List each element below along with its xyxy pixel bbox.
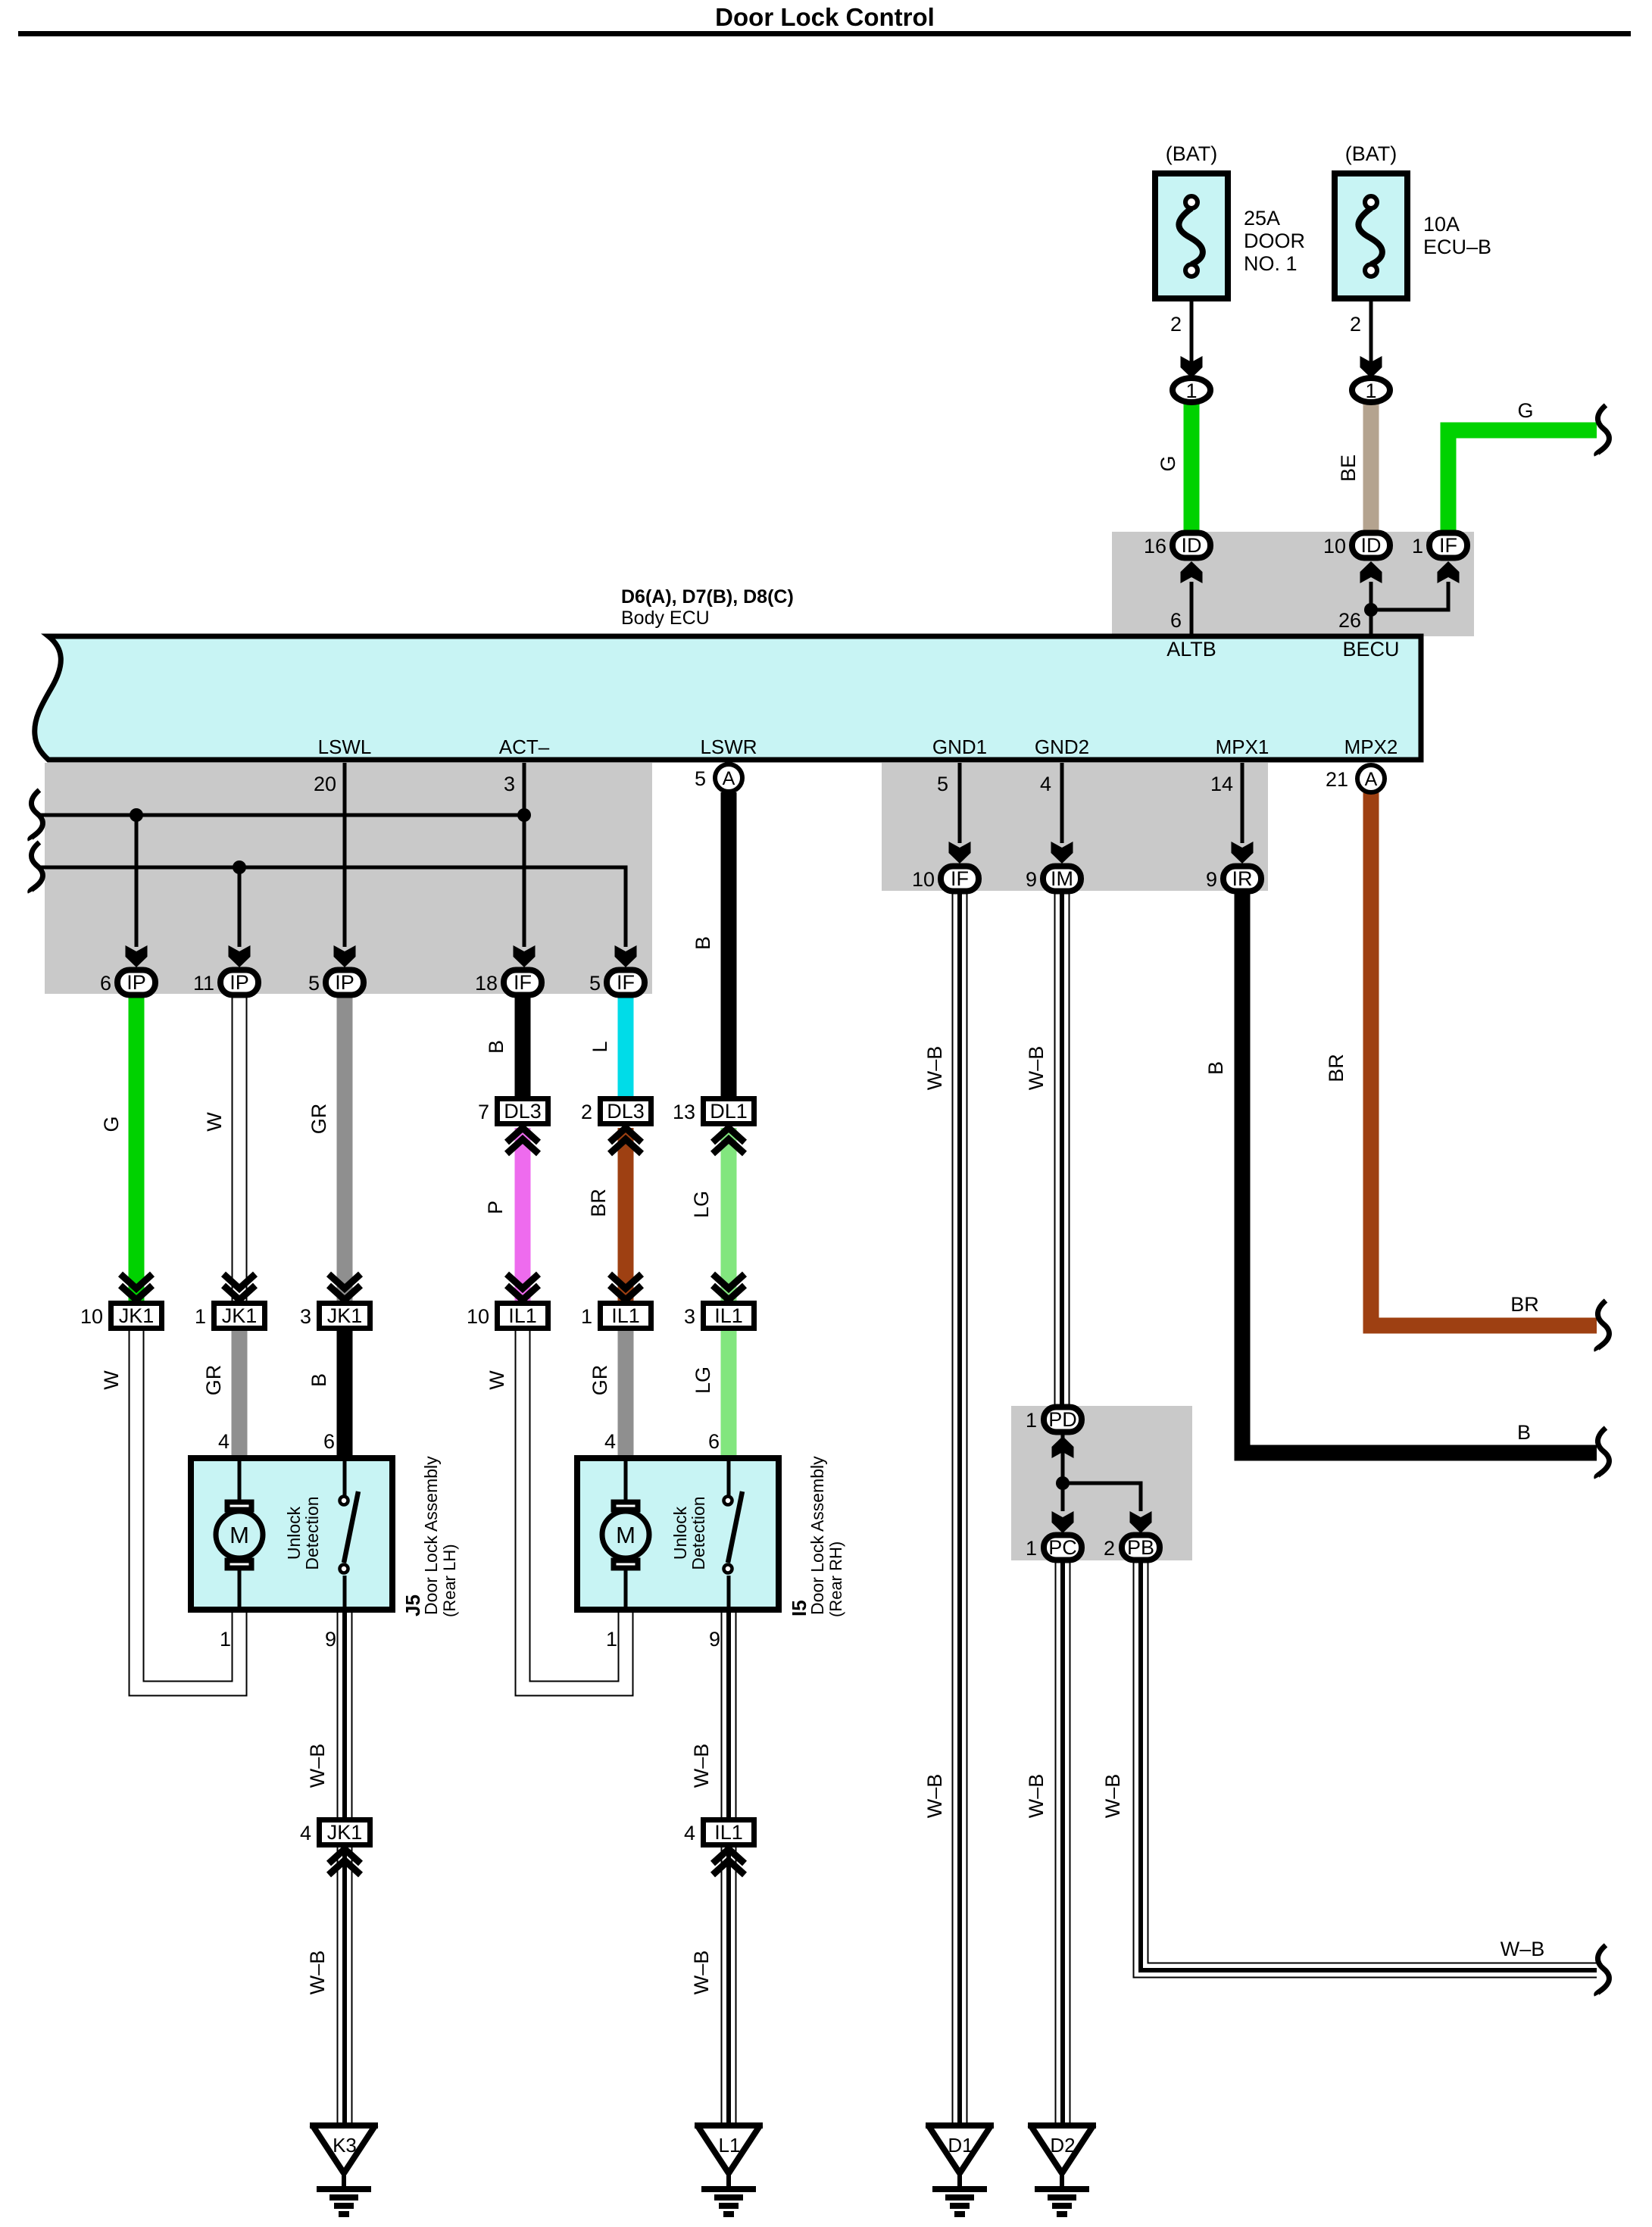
svg-text:L1: L1 bbox=[719, 2134, 741, 2157]
svg-text:2: 2 bbox=[1170, 313, 1182, 336]
node A circle MPX2 pin 21 bbox=[1326, 765, 1385, 792]
svg-text:1: 1 bbox=[1365, 379, 1376, 402]
svg-text:W–B: W–B bbox=[690, 1744, 713, 1788]
ground L1 bbox=[695, 2125, 763, 2214]
svg-text:6: 6 bbox=[323, 1430, 335, 1453]
wire G green IF1 to right break bbox=[1448, 430, 1597, 533]
bus wire 1 bbox=[37, 808, 531, 822]
svg-text:K3: K3 bbox=[333, 2134, 357, 2157]
connector 1 IL1 bbox=[581, 1274, 651, 1329]
wire BR brown 2DL3 to 1IL1 bbox=[618, 1128, 634, 1301]
svg-text:6: 6 bbox=[1170, 609, 1182, 632]
svg-text:NO. 1: NO. 1 bbox=[1244, 252, 1298, 275]
svg-text:Door Lock Assembly: Door Lock Assembly bbox=[807, 1456, 827, 1615]
ground K3 bbox=[310, 2125, 378, 2214]
svg-text:1: 1 bbox=[1026, 1409, 1037, 1432]
svg-text:JK1: JK1 bbox=[327, 1304, 363, 1327]
svg-text:ECU–B: ECU–B bbox=[1423, 236, 1491, 258]
oval IF pin 1 bbox=[1412, 533, 1467, 558]
wire fuse2 pin 2 bbox=[1360, 301, 1382, 378]
svg-text:W–B: W–B bbox=[1025, 1774, 1048, 1819]
connector 7 DL3 bbox=[478, 1099, 548, 1154]
connector 4 JK1 bbox=[300, 1820, 370, 1876]
svg-text:10: 10 bbox=[467, 1305, 489, 1328]
wire GR gray 5IP to 3JK1 bbox=[337, 996, 353, 1301]
svg-text:3: 3 bbox=[504, 773, 515, 795]
svg-text:GR: GR bbox=[202, 1365, 225, 1396]
svg-text:DL3: DL3 bbox=[607, 1100, 645, 1123]
svg-text:11: 11 bbox=[193, 972, 214, 995]
svg-text:2: 2 bbox=[581, 1101, 592, 1123]
svg-text:W–B: W–B bbox=[1501, 1938, 1545, 1960]
oval PC pin 1 bbox=[1026, 1535, 1082, 1560]
svg-text:10: 10 bbox=[80, 1305, 103, 1328]
svg-text:10: 10 bbox=[912, 868, 935, 891]
oval IP pin 6 bbox=[100, 970, 155, 995]
wire GND2 pin4 to 9IM bbox=[1051, 763, 1073, 864]
svg-text:W: W bbox=[100, 1370, 123, 1390]
svg-text:(Rear RH): (Rear RH) bbox=[826, 1541, 845, 1617]
svg-text:B: B bbox=[485, 1040, 507, 1054]
svg-text:B: B bbox=[692, 936, 714, 950]
svg-text:ID: ID bbox=[1182, 534, 1202, 557]
svg-text:PD: PD bbox=[1048, 1408, 1077, 1431]
svg-text:JK1: JK1 bbox=[222, 1304, 258, 1327]
svg-text:G: G bbox=[100, 1116, 123, 1132]
svg-text:Body ECU: Body ECU bbox=[621, 608, 710, 629]
svg-text:M: M bbox=[616, 1522, 636, 1548]
svg-text:14: 14 bbox=[1210, 773, 1233, 795]
oval IP pin 11 bbox=[193, 970, 258, 995]
wire junction PD to PC and PB bbox=[1052, 1434, 1152, 1533]
svg-text:IF: IF bbox=[514, 971, 532, 994]
svg-text:BECU: BECU bbox=[1342, 638, 1399, 661]
svg-text:MPX1: MPX1 bbox=[1216, 736, 1269, 758]
wire W loop 10IL1 to RH pin1 bbox=[523, 1331, 626, 1688]
wire W-B 2PB to right break bbox=[1141, 1560, 1597, 1970]
svg-text:16: 16 bbox=[1144, 535, 1166, 558]
svg-text:10A: 10A bbox=[1423, 213, 1460, 236]
wire drop to 6 IP bbox=[126, 815, 148, 967]
svg-text:W–B: W–B bbox=[923, 1046, 946, 1091]
svg-text:Door Lock Assembly: Door Lock Assembly bbox=[421, 1456, 441, 1615]
svg-text:IF: IF bbox=[617, 971, 635, 994]
connector 10 JK1 bbox=[80, 1274, 162, 1329]
wire ACT- pin 3 to 18 IF bbox=[514, 763, 536, 967]
wire LSWL pin 20 to 5 IP bbox=[334, 763, 356, 967]
svg-text:3: 3 bbox=[300, 1305, 311, 1328]
svg-text:GR: GR bbox=[589, 1365, 611, 1396]
svg-text:LSWR: LSWR bbox=[700, 736, 757, 758]
svg-text:1: 1 bbox=[1026, 1537, 1037, 1560]
connector 10 IL1 bbox=[467, 1274, 548, 1329]
svg-text:6: 6 bbox=[708, 1430, 720, 1453]
svg-text:B: B bbox=[1517, 1421, 1531, 1444]
svg-text:IF: IF bbox=[951, 867, 969, 890]
svg-text:IP: IP bbox=[230, 971, 249, 994]
svg-text:4: 4 bbox=[300, 1822, 311, 1844]
svg-text:B: B bbox=[308, 1373, 330, 1387]
oval PB pin 2 bbox=[1104, 1535, 1160, 1560]
label BR MPX2 + break bbox=[1325, 1054, 1609, 1351]
svg-text:GND2: GND2 bbox=[1035, 736, 1089, 758]
svg-text:ID: ID bbox=[1361, 534, 1382, 557]
svg-text:9: 9 bbox=[709, 1628, 720, 1651]
label J5 Door Lock Assembly Rear LH bbox=[401, 1456, 459, 1617]
svg-text:1: 1 bbox=[1185, 379, 1197, 402]
motor M RH bbox=[602, 1458, 649, 1610]
svg-text:PB: PB bbox=[1127, 1536, 1154, 1559]
svg-text:BR: BR bbox=[587, 1188, 610, 1217]
svg-text:W: W bbox=[203, 1112, 226, 1132]
title rule bbox=[18, 31, 1631, 36]
wire P violet 7DL3 to 10IL1 bbox=[515, 1128, 531, 1301]
connector band gray right IF/IM/IR bbox=[882, 763, 1268, 891]
door lock assembly Rear RH box bbox=[577, 1430, 779, 1651]
connector band gray PD/PC/PB bbox=[1011, 1406, 1192, 1560]
connector circle 1 fuse1 bbox=[1173, 378, 1210, 402]
svg-text:5: 5 bbox=[589, 972, 601, 995]
svg-text:DL1: DL1 bbox=[710, 1100, 748, 1123]
door lock assembly Rear LH box bbox=[191, 1430, 392, 1651]
connector 2 DL3 bbox=[581, 1099, 651, 1154]
svg-text:A: A bbox=[723, 768, 735, 789]
oval IF pin 10 bbox=[912, 867, 979, 892]
node A circle LSWR bbox=[695, 764, 742, 792]
connector 1 JK1 bbox=[195, 1274, 265, 1329]
svg-text:IL1: IL1 bbox=[611, 1304, 640, 1327]
svg-text:PC: PC bbox=[1048, 1536, 1077, 1559]
wire W-B 4JK1 to ground K3 bbox=[337, 1848, 353, 2125]
fuse 10A ECU-B bbox=[1335, 142, 1491, 336]
wire BECU pin26 to ID10 and IF1 bbox=[1360, 561, 1460, 636]
wire B black LSWR A to 13 DL1 bbox=[721, 792, 737, 1096]
svg-text:Unlock: Unlock bbox=[284, 1506, 304, 1560]
svg-text:21: 21 bbox=[1326, 768, 1348, 791]
wire drop to 11 IP bbox=[229, 867, 251, 967]
wire B black 18IF to 7DL3 bbox=[515, 996, 531, 1096]
svg-text:W–B: W–B bbox=[1101, 1774, 1124, 1819]
label B MPX1 + break bbox=[1204, 1061, 1609, 1478]
svg-text:1: 1 bbox=[581, 1305, 592, 1328]
svg-text:GND1: GND1 bbox=[932, 736, 987, 758]
svg-text:IL1: IL1 bbox=[714, 1304, 743, 1327]
svg-text:5: 5 bbox=[308, 972, 320, 995]
oval ID pin 16 bbox=[1144, 533, 1210, 558]
svg-text:4: 4 bbox=[604, 1430, 616, 1453]
motor M LH bbox=[216, 1458, 263, 1610]
label G wire right + break bbox=[1517, 399, 1609, 455]
wire MPX1 pin14 to 9IR bbox=[1232, 763, 1254, 864]
wire W loop 10JK1 to LH pin1 bbox=[136, 1331, 239, 1688]
connector 3 IL1 bbox=[684, 1274, 754, 1329]
svg-text:1: 1 bbox=[220, 1628, 231, 1651]
wire GND1 pin5 to 10IF bbox=[949, 763, 971, 864]
svg-text:IR: IR bbox=[1232, 867, 1253, 890]
wire fuse1 pin 2 bbox=[1181, 301, 1203, 378]
svg-text:6: 6 bbox=[100, 972, 111, 995]
svg-text:LG: LG bbox=[692, 1366, 714, 1394]
label W-B PB + break bbox=[1101, 1774, 1609, 1995]
svg-text:D2: D2 bbox=[1050, 2134, 1075, 2157]
wire G green 6IP to 10JK1 bbox=[129, 996, 145, 1301]
connector circle 1 fuse2 bbox=[1352, 378, 1390, 402]
connector 3 JK1 bbox=[300, 1274, 370, 1329]
fuse 25A DOOR NO.1 bbox=[1155, 142, 1305, 336]
break left bus 1 bbox=[30, 790, 43, 840]
svg-text:GR: GR bbox=[308, 1104, 330, 1135]
svg-text:D1: D1 bbox=[948, 2134, 973, 2157]
svg-text:IL1: IL1 bbox=[508, 1304, 537, 1327]
svg-text:L: L bbox=[589, 1041, 611, 1052]
svg-text:2: 2 bbox=[1350, 313, 1361, 336]
svg-text:P: P bbox=[484, 1201, 507, 1214]
svg-text:9: 9 bbox=[1026, 868, 1037, 891]
wire B 3JK1 to LH pin6 bbox=[337, 1331, 353, 1457]
wire GR 1JK1 to LH pin4 bbox=[232, 1331, 248, 1457]
unlock detection switch LH bbox=[284, 1458, 358, 1610]
svg-text:G: G bbox=[1517, 399, 1533, 422]
svg-text:5: 5 bbox=[937, 773, 948, 795]
svg-text:9: 9 bbox=[325, 1628, 336, 1651]
ground D1 bbox=[926, 2125, 994, 2214]
svg-text:G: G bbox=[1157, 455, 1179, 471]
svg-text:BE: BE bbox=[1337, 454, 1360, 482]
oval IP pin 5 bbox=[308, 970, 364, 995]
svg-text:10: 10 bbox=[1323, 535, 1346, 558]
svg-text:DOOR: DOOR bbox=[1244, 230, 1305, 252]
svg-text:W–B: W–B bbox=[1025, 1046, 1048, 1091]
svg-text:20: 20 bbox=[314, 773, 336, 795]
bus wire 2 bbox=[37, 861, 626, 947]
oval IM pin 9 bbox=[1026, 867, 1081, 892]
svg-text:LSWL: LSWL bbox=[318, 736, 372, 758]
connector band gray left IP/IF bbox=[45, 763, 652, 994]
svg-text:(BAT): (BAT) bbox=[1166, 142, 1218, 165]
wire LG light green 13DL1 to 3IL1 bbox=[721, 1128, 737, 1301]
wire W-B LH pin9 to 4JK1 bbox=[337, 1610, 353, 1818]
svg-text:Detection: Detection bbox=[689, 1496, 708, 1570]
wire BE tan fuse2 to ID10 bbox=[1363, 402, 1379, 533]
ground D2 bbox=[1028, 2125, 1096, 2214]
svg-text:BR: BR bbox=[1325, 1054, 1348, 1082]
svg-text:3: 3 bbox=[684, 1305, 695, 1328]
svg-text:1: 1 bbox=[606, 1628, 617, 1651]
arrow into 5 IF bbox=[615, 945, 637, 967]
svg-text:9: 9 bbox=[1206, 868, 1217, 891]
wire BR brown MPX2 to right break bbox=[1371, 792, 1597, 1326]
svg-text:JK1: JK1 bbox=[119, 1304, 155, 1327]
connector band gray ID/IF top right bbox=[1112, 532, 1474, 636]
wire LG 3IL1 to RH pin6 bbox=[721, 1331, 737, 1457]
svg-text:W: W bbox=[486, 1370, 508, 1390]
wire W-B 9IM to 1PD bbox=[1054, 892, 1070, 1407]
connector 13 DL1 bbox=[673, 1099, 754, 1154]
svg-text:1: 1 bbox=[195, 1305, 206, 1328]
svg-text:IP: IP bbox=[335, 971, 354, 994]
svg-text:4: 4 bbox=[684, 1822, 695, 1844]
wire W-B 10IF to ground D1 bbox=[952, 892, 968, 2125]
svg-text:26: 26 bbox=[1338, 609, 1361, 632]
unlock detection switch RH bbox=[670, 1458, 742, 1610]
svg-text:DL3: DL3 bbox=[504, 1100, 542, 1123]
wire W white 11IP to 1JK1 bbox=[232, 996, 248, 1301]
oval IR pin 9 bbox=[1206, 867, 1261, 892]
svg-text:IM: IM bbox=[1051, 867, 1073, 890]
svg-text:Detection: Detection bbox=[302, 1496, 322, 1570]
wire ALTB pin6 to ID16 bbox=[1181, 561, 1203, 636]
wire W-B RH pin9 to 4IL1 bbox=[721, 1610, 737, 1818]
svg-text:18: 18 bbox=[475, 972, 498, 995]
svg-text:13: 13 bbox=[673, 1101, 695, 1123]
svg-text:MPX2: MPX2 bbox=[1344, 736, 1398, 758]
label I5 Door Lock Assembly Rear RH bbox=[788, 1456, 845, 1617]
svg-text:JK1: JK1 bbox=[327, 1821, 363, 1844]
oval IF pin 18 bbox=[475, 970, 542, 995]
svg-text:Door Lock Control: Door Lock Control bbox=[715, 3, 935, 31]
Body ECU box bbox=[35, 586, 1421, 760]
wire B black 9IR to right break bbox=[1242, 892, 1597, 1453]
wire L blue 5IF to 2DL3 bbox=[618, 996, 634, 1096]
svg-text:(BAT): (BAT) bbox=[1345, 142, 1397, 165]
oval PD pin 1 bbox=[1026, 1407, 1082, 1432]
svg-text:IL1: IL1 bbox=[714, 1821, 743, 1844]
wire GR 1IL1 to RH pin4 bbox=[618, 1331, 634, 1457]
svg-text:BR: BR bbox=[1510, 1293, 1539, 1316]
svg-text:W–B: W–B bbox=[690, 1951, 713, 1995]
break left bus 2 bbox=[30, 842, 43, 892]
svg-text:A: A bbox=[1365, 769, 1378, 790]
wire G green fuse1 to ID16 bbox=[1184, 402, 1200, 533]
svg-text:ACT–: ACT– bbox=[499, 736, 550, 758]
svg-text:(Rear LH): (Rear LH) bbox=[440, 1544, 459, 1617]
svg-text:D6(A), D7(B), D8(C): D6(A), D7(B), D8(C) bbox=[621, 586, 794, 608]
svg-text:IF: IF bbox=[1439, 534, 1457, 557]
wire W-B 4IL1 to ground L1 bbox=[721, 1848, 737, 2125]
svg-text:25A: 25A bbox=[1244, 207, 1280, 230]
svg-text:W–B: W–B bbox=[306, 1744, 329, 1788]
oval ID pin 10 bbox=[1323, 533, 1390, 558]
svg-text:W–B: W–B bbox=[306, 1951, 329, 1995]
svg-text:IP: IP bbox=[126, 971, 146, 994]
svg-text:4: 4 bbox=[1040, 773, 1051, 795]
svg-text:M: M bbox=[230, 1522, 249, 1548]
connector 4 IL1 bbox=[684, 1820, 754, 1876]
svg-text:7: 7 bbox=[478, 1101, 489, 1123]
svg-text:W–B: W–B bbox=[923, 1774, 946, 1819]
svg-text:2: 2 bbox=[1104, 1537, 1115, 1560]
oval IF pin 5 bbox=[589, 970, 645, 995]
svg-text:LG: LG bbox=[690, 1191, 713, 1218]
svg-text:Unlock: Unlock bbox=[670, 1506, 690, 1560]
svg-text:5: 5 bbox=[695, 767, 706, 790]
svg-text:ALTB: ALTB bbox=[1166, 638, 1216, 661]
svg-text:1: 1 bbox=[1412, 535, 1423, 558]
wire W-B 1PC to ground D2 bbox=[1055, 1560, 1071, 2125]
svg-text:4: 4 bbox=[218, 1430, 230, 1453]
svg-text:B: B bbox=[1204, 1061, 1227, 1075]
